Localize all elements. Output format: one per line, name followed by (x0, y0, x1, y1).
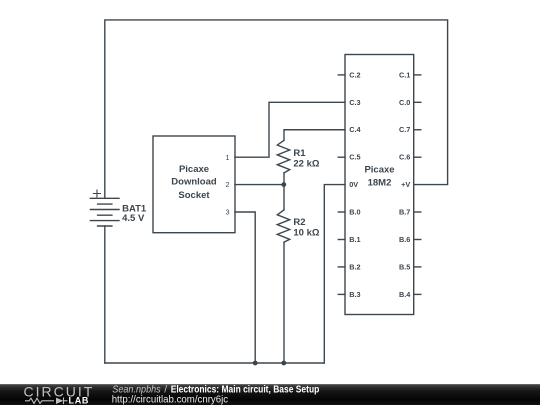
svg-text:C.7: C.7 (399, 125, 410, 134)
socket box Picaxe Download Socket (153, 136, 235, 233)
svg-text:+V: +V (401, 180, 410, 189)
svg-text:4.5 V: 4.5 V (122, 213, 145, 224)
svg-text:C.3: C.3 (349, 98, 360, 107)
svg-text:C.4: C.4 (349, 125, 361, 134)
svg-text:C.2: C.2 (349, 70, 360, 79)
pin stub B.4 (414, 293, 421, 295)
svg-text:http://circuitlab.com/cnry6jc: http://circuitlab.com/cnry6jc (112, 393, 228, 405)
svg-text:22 kΩ: 22 kΩ (293, 158, 319, 169)
svg-text:LAB: LAB (69, 396, 90, 405)
pin stub C.5 (338, 156, 345, 158)
node junction R2 / bottom rail (281, 361, 286, 366)
wire 0V to bottom rail (324, 185, 345, 363)
svg-text:B.1: B.1 (349, 235, 360, 244)
IC box Picaxe 18M2 (345, 55, 414, 315)
svg-text:2: 2 (225, 180, 229, 189)
wire R1 bottom to R2 top (283, 173, 285, 210)
svg-text:1: 1 (225, 153, 229, 162)
pin stub C.7 (414, 129, 421, 131)
svg-text:10 kΩ: 10 kΩ (293, 227, 319, 238)
svg-text:B.7: B.7 (399, 208, 410, 217)
resistor R2 (277, 210, 289, 242)
svg-text:B.5: B.5 (399, 262, 410, 271)
resistor R1 (277, 140, 289, 173)
wire bottom rail (105, 362, 324, 364)
svg-text:B.4: B.4 (399, 290, 411, 299)
logo resistor zigzag and diode (25, 398, 68, 405)
svg-text:Picaxe: Picaxe (364, 165, 394, 176)
svg-text:C.6: C.6 (399, 153, 410, 162)
wire socket pin1 to C.3 (235, 102, 345, 157)
svg-text:Download: Download (171, 177, 217, 188)
pin stub B.7 (414, 211, 421, 213)
svg-text:B.3: B.3 (349, 290, 360, 299)
node junction pin3 wire / bottom rail (253, 361, 258, 366)
wire battery negative to bottom rail (104, 226, 106, 363)
svg-text:Picaxe: Picaxe (179, 164, 209, 175)
pin stub B.2 (338, 266, 345, 268)
pin stub B.0 (338, 211, 345, 213)
svg-text:B.0: B.0 (349, 208, 360, 217)
battery BAT1 (90, 198, 119, 226)
pin stub B.1 (338, 239, 345, 241)
svg-text:0V: 0V (349, 180, 358, 189)
node divider junction dot (281, 182, 286, 187)
wire R2 bottom to bottom rail (283, 242, 285, 363)
pin stub C.6 (414, 156, 421, 158)
pin stub B.3 (338, 293, 345, 295)
pin stub C.2 (338, 74, 345, 76)
svg-text:18M2: 18M2 (368, 177, 392, 188)
svg-text:B.6: B.6 (399, 235, 410, 244)
svg-text:B.2: B.2 (349, 262, 360, 271)
svg-text:Socket: Socket (178, 190, 210, 201)
wire C.4 to R1 top (284, 130, 345, 141)
wire top +V rail (105, 20, 448, 198)
pin stub B.5 (414, 266, 421, 268)
svg-text:3: 3 (225, 208, 229, 217)
footer black bar (0, 384, 540, 405)
svg-text:C.0: C.0 (399, 98, 410, 107)
logo diode triangle (56, 398, 63, 404)
svg-text:C.5: C.5 (349, 153, 360, 162)
battery plus sign (93, 190, 100, 197)
wire socket pin3 to bottom rail (235, 212, 255, 363)
wire socket pin2 to divider node (235, 184, 284, 186)
svg-text:C.1: C.1 (399, 70, 410, 79)
pin stub C.0 (414, 101, 421, 103)
pin stub B.6 (414, 239, 421, 241)
pin stub C.1 (414, 74, 421, 76)
